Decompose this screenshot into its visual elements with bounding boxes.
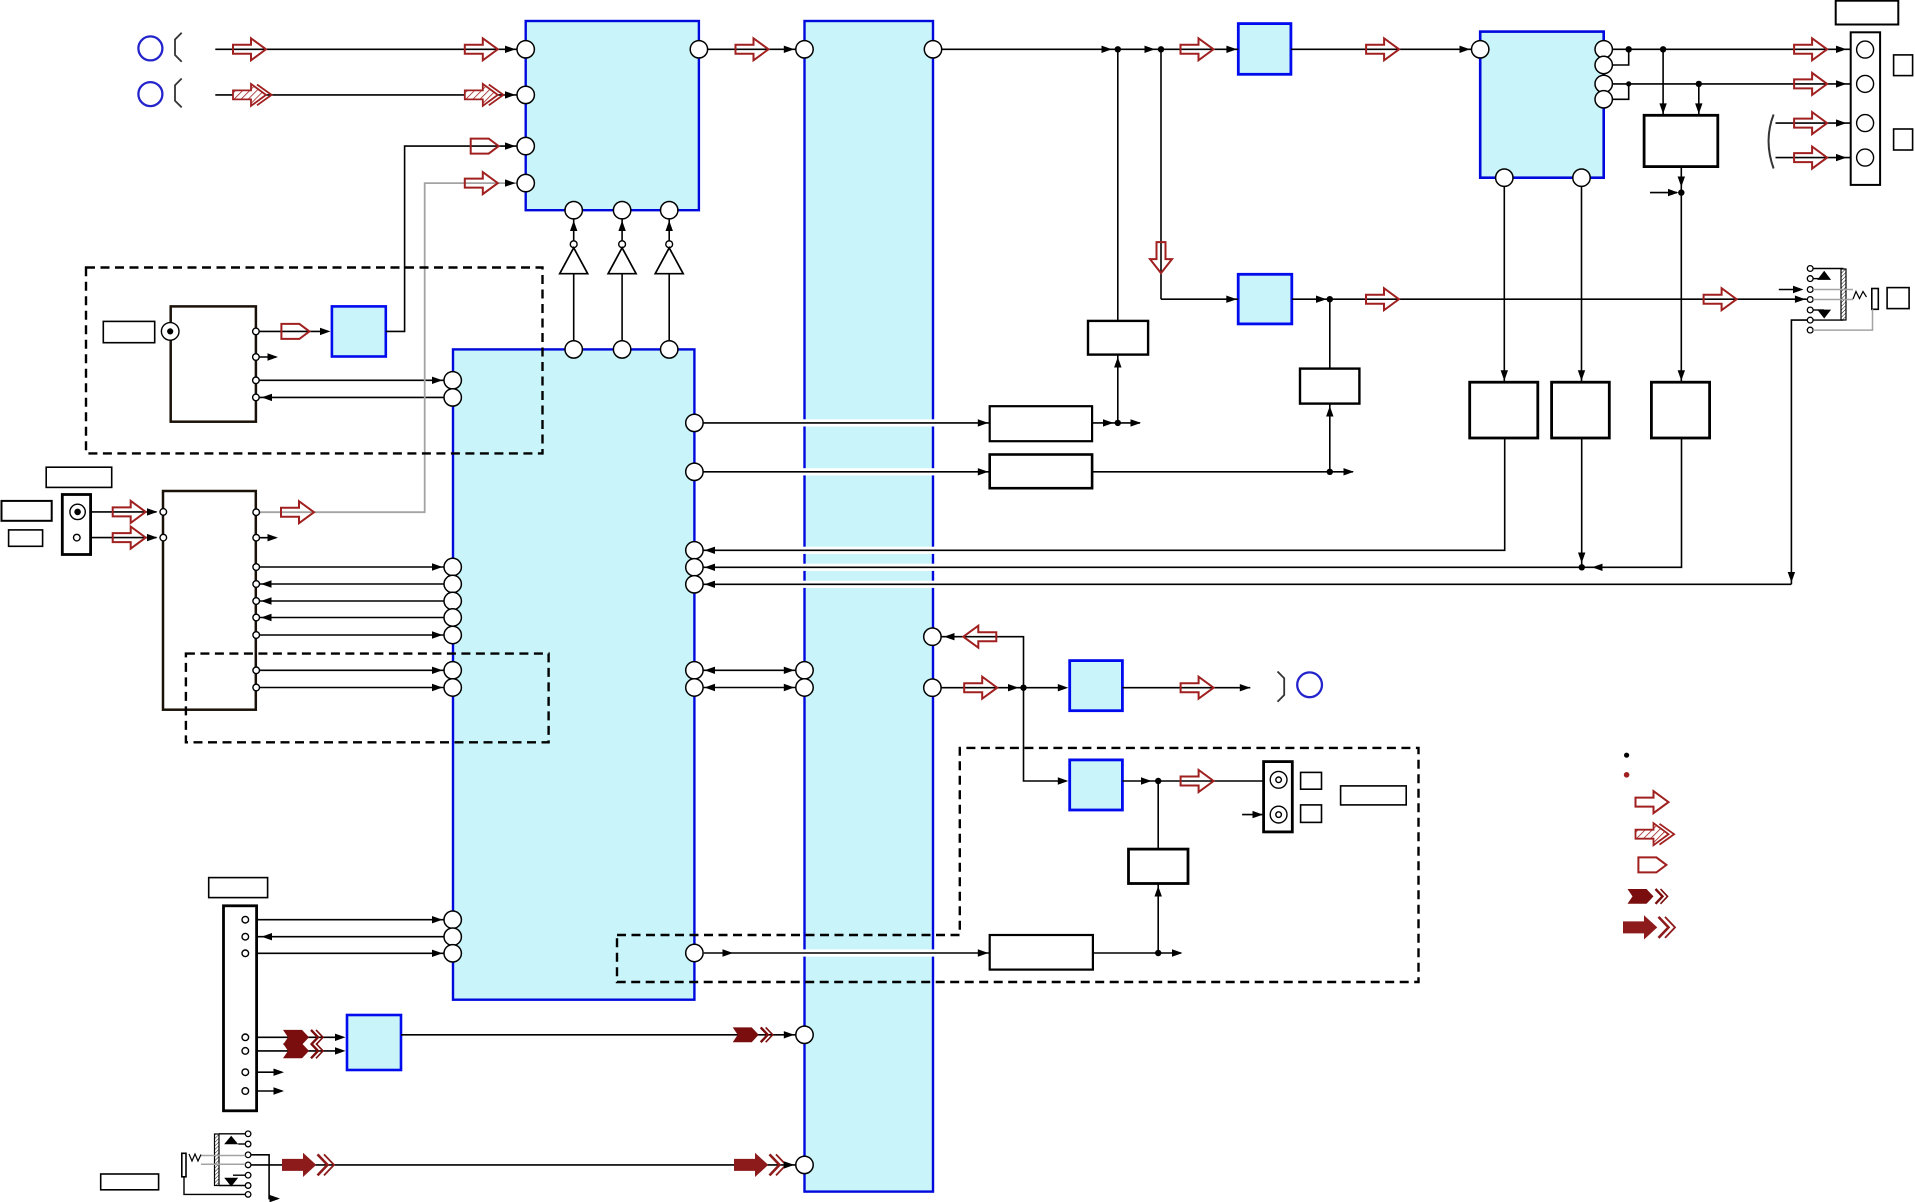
pin X3.2 [242,933,249,940]
wire halo across U2 [803,581,935,588]
label arrow row3 [471,139,499,154]
pin X1.3 [253,377,260,384]
arrowhead row670 into U3 [432,667,443,674]
arrowhead U8 out end [1240,684,1251,691]
arrowhead stub J6 [1668,189,1679,196]
arrowhead into connector pin2 [1836,80,1847,87]
IC block U8 (headphone amp) [1070,661,1123,711]
ENC2 up contact wire [238,1143,245,1145]
signal arrow jack2 in [113,527,146,549]
arrowhead into J5 [1316,296,1327,303]
wire box2 row 635 to U3 [259,634,444,636]
pin U2.r687 [924,679,941,696]
pin U2.l1034 [796,1026,813,1043]
legend dot red [1624,772,1630,778]
junction J3d [1696,81,1702,87]
signal arrow U9 out [1181,770,1214,792]
junction J8 [1579,564,1585,570]
buffer amp T3 [655,248,683,274]
ENC1 wiper zigzag [1853,292,1867,300]
arrowhead into U8 [1058,684,1069,691]
arrowhead into U2 pin 636 [944,633,955,640]
component box B1 (filter) [1088,321,1148,355]
signal arrow into encoder [1704,288,1737,310]
pin U2.in [796,41,813,58]
wire buffer2 in [621,219,623,241]
arrowhead box3 stub1072 [274,1069,285,1076]
vol arrow to U2 (big solid) [735,1154,787,1176]
wire R3 out down-left [1582,438,1682,567]
wire U5-U6 segment [1291,48,1472,50]
wire J5 drop to B2 [1329,299,1331,368]
pin X2.r9 [253,684,260,691]
wire B3 out to J4 [1092,422,1140,424]
legend arrow label [1638,857,1666,872]
ENC1 wiper wire a [1813,289,1853,291]
pin X1.2 [253,354,260,361]
wire halo across U2 [803,949,935,956]
wire connector row4 [1776,157,1857,159]
key arrow U10 out (solid) [733,1027,773,1042]
arrowhead into U1 pin4 [505,179,516,186]
signal arrow down J2 [1150,242,1172,273]
wire U6 out row1 [1612,48,1856,50]
wire box2 row 687 to U3 [259,687,444,689]
wire box2 row 617 to U3 [259,617,444,619]
arrowhead encoder drop [1788,572,1795,583]
ENC1 detent bar (hatched) [1841,269,1846,320]
junction J3a [1626,46,1632,52]
wire halo across U2 [803,419,935,426]
arrowhead into R3 [1678,370,1685,381]
junction J2 [1158,46,1164,52]
label square S4 (RCA sq1) [1301,772,1322,789]
arrowhead into U6 pin [1460,46,1471,53]
connector box X4 (power jack) [62,495,90,555]
wire U7 out to encoder [1292,298,1807,300]
wire halo across U2 [803,564,935,571]
arrowhead R2 into J8 [1578,553,1585,564]
ENC2 plug bar [182,1153,186,1177]
wire box3 stub 1091 [249,1090,283,1092]
pin U3.l380 [444,372,461,389]
pin U3.l584 [444,575,461,592]
arrowhead into box2 pin2 [147,534,158,541]
pin U3.t2 [613,341,630,358]
wire buffer1 in [573,219,575,241]
speaker circle [1297,672,1322,697]
encoder ENC1 pin 2 [1807,276,1813,282]
wire box1 stub row 357 [259,356,276,358]
wire box2 row 567 to U3 [259,566,444,568]
arrowhead into connector pin1 [1836,46,1847,53]
arrowhead row1 into U3 pin [705,547,716,554]
pin X3.3 [242,950,249,957]
IC block U7 (volume stage) [1238,274,1292,324]
pin U6.b2 [1573,169,1590,186]
pin X2.r4 [253,581,260,588]
pin U3.l635 [444,626,461,643]
pin U6.r4 [1595,91,1612,108]
wire box1 row 380 to U3 [259,379,444,381]
wire U3-U2 pair row 670 [703,669,796,671]
arrowhead into U10 b [335,1047,346,1054]
wire U6 pin2 jog [1612,49,1628,65]
pin U1.b2 [613,202,630,219]
wire R2 out down [1581,438,1583,567]
arrowhead into F1 right [1695,103,1702,114]
pin X3.5 [242,1048,249,1055]
label square S5 (RCA sq2) [1301,805,1322,823]
arrowhead pair687 right [784,684,795,691]
pin U2.out [924,41,941,58]
wire box3 row 919 to U3 [249,919,445,921]
signal arrow U2 row687 [964,677,997,699]
IC block U9 (line out buffer) [1070,760,1123,810]
arrowhead into U4 [320,328,331,335]
pin X3.7 [242,1088,249,1095]
pin X1.1 [253,328,260,335]
wire U3 row 953 to B6 [704,952,990,954]
arrowhead before J2 [1145,46,1156,53]
encoder ENC2 pin 1 [245,1131,251,1137]
legend arrow hatched [1636,823,1675,845]
pin U1.4 [517,174,534,191]
wire J9 drop to B5 [1157,781,1159,849]
ENC2 detent bar (hatched) [215,1134,220,1186]
label square S2 [1894,129,1913,150]
mic symbol M2 bracket [175,79,182,108]
wire U3 row 471 to B4 [703,471,990,473]
pin X1.4 [253,394,260,401]
encoder ENC2 pin 3 [245,1152,251,1158]
encoder ENC1 pin 3 [1807,287,1813,293]
ENC2 bottom wire [184,1177,245,1195]
pin X3.4 [242,1034,249,1041]
arrowhead into J9 [1141,777,1152,784]
pin X3.1 [242,916,249,923]
encoder ENC1 pin 4 [1807,297,1813,303]
pin U6.b1 [1496,169,1513,186]
arrowhead into J9k [1008,684,1019,691]
component box B3 (regulator) [990,406,1092,441]
label square S3 (phones) [1887,288,1909,309]
pin U1.1 [517,41,534,58]
dashed enclosure DB2 (key input group) [186,654,549,743]
pin X1.jack [167,328,174,335]
pin X2.r1 [253,509,260,516]
pin U3.l397 [444,389,461,406]
arrowhead row2 into U3 pin [705,564,716,571]
wire buffer3 in [668,219,670,241]
IC block U3 (system control / main processor) [453,349,694,999]
arrowhead into encoder c4 [1795,296,1806,303]
component box B4 (regulator) [990,455,1092,489]
arrowhead into connector pin4 [1836,154,1847,161]
signal arrow U5-U6 [1366,38,1399,60]
ENC1 down contact wire [1813,309,1824,311]
signal arrow U2-U5 [1181,38,1214,60]
jack symbol on X4 [70,504,85,519]
wire U2 out row 687 [941,687,1064,689]
pin U3.r471 [686,463,703,480]
RCA jack bottom [1270,806,1287,823]
wire halo across U2 [803,547,935,554]
label box L8 (top right) [1836,1,1899,25]
pin U3.l617 [444,609,461,626]
junction J6 [1678,189,1684,195]
dashed enclosure DB1 (reset circuit) [86,268,543,454]
pin U6.r2 [1595,56,1612,73]
arrowhead row953 into U3 [432,950,443,957]
pin U3.r550 [686,542,703,559]
wire gray reset line [260,183,517,512]
encoder ENC2 pin 7 [245,1192,251,1198]
signal arrow mic2 a (hatched) [233,84,272,106]
wire J2 drop [1160,49,1162,299]
wire U9 out to RCA L [1122,780,1270,782]
dashed enclosure DB3 (audio output group, L-shape) [617,748,1419,982]
mic symbol M2 circle [138,82,162,106]
signal arrow box1 out (label) [281,324,309,339]
arrowhead into U1 pin1 [505,46,516,53]
arrowhead into B5 bottom [1155,886,1162,897]
arrowhead row567 into U3 [432,563,443,570]
wire buffer3 out [668,274,670,341]
pin X2.r3 [253,564,260,571]
pin U3.l953 [444,945,461,962]
component box R3 [1651,382,1709,438]
wire B4 out to J7 [1092,471,1353,473]
wire encoder2 out to U2 [251,1164,796,1166]
arrowhead box1 stub357 [268,353,279,360]
component box X2 (jack detect) [163,491,256,710]
IC block U4 (reset IC in dashed box) [332,306,386,356]
ENC1 wire c6-bar [1813,319,1843,321]
pin U2.r636 [924,628,941,645]
pin X2.l1 [160,509,167,516]
ENC2 down contact wire [233,1174,245,1176]
arrowhead into B6 [978,949,989,956]
arrowhead row953 a [723,949,734,956]
pin U1.out [690,41,707,58]
wire box3 row 953 to U3 [249,952,445,954]
ENC1 sleeve wire gray [1813,309,1872,330]
label box L4 [9,530,43,546]
junction J1 [1115,46,1121,52]
junction J3c [1626,81,1631,86]
pin U3.r422 [686,414,703,431]
wire box2 row 584 to U3 [259,583,444,585]
arrowhead stub J10 [1172,949,1183,956]
IC block U1 (input selector) [526,21,699,210]
arrowhead buffer2 up [618,221,625,232]
legend arrow open [1636,791,1669,813]
encoder ENC2 pin 5 [245,1172,251,1178]
key arrow box3-1 (solid) [283,1030,323,1045]
wire mic2 line [215,94,517,96]
arrowhead B3 out into J4 [1103,419,1114,426]
wire stub into junction J6 [1650,192,1677,194]
legend arrow solid big [1624,916,1676,938]
signal arrow mic2 b (hatched) [465,84,504,106]
encoder ENC1 pin 5 [1807,307,1813,313]
pin U3.t1 [565,341,582,358]
wire box1 out row 331 [259,330,326,332]
wire U3 row 397 to box1 [259,396,444,398]
mic symbol M1 bracket [175,33,182,62]
signal arrow U1-U2 [736,38,769,60]
ENC2 wire c6-bar [219,1185,245,1187]
encoder ENC1 pin 7 [1807,327,1813,333]
ENC2 wire c1-bar [219,1133,245,1135]
wire U3 row 936 to box3 [249,936,445,938]
arrowhead into U10 a [335,1034,346,1041]
signal arrow mic1 a [233,38,266,60]
arrowhead into U2 pin top [784,46,795,53]
label box L6 [101,1174,159,1190]
buffer amp T3 bubble [666,241,673,248]
pin X2.r5 [253,598,260,605]
buffer amp T2 [608,248,636,274]
ENC2 wiper wire a [201,1155,245,1157]
arrowhead into R2 [1578,370,1585,381]
arrowhead into B3 [978,419,989,426]
key arrow box3-2 (solid) [283,1044,323,1059]
pin U3.l919 [444,911,461,928]
label box L1 [103,321,154,342]
junction J10 [1155,950,1161,956]
arrowhead encoder2 into U2 [784,1161,795,1168]
ENC1 stub into c3 [1779,289,1795,291]
encoder ENC1 pin 1 [1807,266,1813,272]
pin U3.l936 [444,928,461,945]
signal arrow gray line [281,501,314,523]
wire U6 out row2 [1612,83,1856,85]
ENC1 jack sleeve [1872,289,1879,310]
buffer amp T1 [560,248,588,274]
wire encoder2 sw stub [251,1155,278,1199]
legend arrow solid small [1628,889,1668,904]
arrowhead row584 into box2 [261,580,272,587]
wire U2-U5 segment [942,48,1239,50]
ENC1 wire c1-bar [1813,268,1843,270]
arrowhead into connector pin3 [1836,119,1847,126]
buffer amp T2 bubble [619,241,626,248]
pin U3.l567 [444,558,461,575]
pin X2.r2 [253,534,260,541]
wire B2 to J7 [1329,404,1331,472]
arrowhead into U9 [1058,777,1069,784]
ENC2 up triangle [224,1136,238,1145]
pin U3.l670 [444,662,461,679]
wire net row3 to U3 [703,583,1791,585]
junction J7 [1327,469,1333,475]
wire B1 to J4 [1117,355,1119,423]
arrowhead encoder2 sw stub [270,1195,281,1202]
pin U1.b1 [565,202,582,219]
ENC2 wiper wire b [201,1163,245,1165]
arrowhead into encoder c3 [1793,286,1804,293]
wire box3 row 1037 to U10 [249,1036,342,1038]
arrowhead F1 drop [1678,177,1685,188]
pin X4.2 [74,534,81,541]
wire halo across U2 [803,468,935,475]
arrowhead into U1 pin2 [505,91,516,98]
jack symbol on X1 [161,323,179,341]
wire U6 pin4 jog [1612,84,1628,99]
arrowhead row397 into box1 [262,394,273,401]
wire box3 stub 1072 [249,1071,283,1073]
ENC2 down triangle [224,1178,238,1187]
pin X2.l2 [160,534,167,541]
component box B5 (mute) [1129,849,1189,883]
ENC1 wiper wire b [1813,299,1853,301]
wire J1 drop to B1 [1117,49,1119,321]
pin U1.b3 [661,202,678,219]
signal arrow jack1 in [113,501,146,523]
wire U6 pin6 drop to R2 [1581,186,1583,382]
pin X3.6 [242,1069,249,1076]
arrowhead into F1 left [1659,103,1666,114]
signal arrow to connector row4 [1794,147,1827,169]
pin U3.l601 [444,592,461,609]
junction J9k [1020,685,1026,691]
pin U3.r953 [686,944,703,961]
encoder ENC2 pin 6 [245,1183,251,1189]
wire jack2 to box2 pin2 [80,537,156,539]
arrowhead U10 out into U2 [784,1031,795,1038]
arrowhead box3 stub1091 [274,1087,285,1094]
arrowhead row380 into U3 [432,377,443,384]
IC block U10 (interface buffer) [347,1015,401,1070]
encoder ENC2 pin 4 [245,1162,251,1168]
pin U3.r670 [686,662,703,679]
pin U3.l687 [444,679,461,696]
component box R2 [1552,382,1610,438]
pin X5.4 [1857,149,1874,166]
arrowhead into B4 [978,468,989,475]
arrowhead before J1 [1102,46,1113,53]
signal arrow mic1 b [465,38,498,60]
arrowhead row617 into box2 [261,614,272,621]
arrowhead into RCA R [1253,811,1264,818]
component box B2 (detector) [1300,369,1359,404]
arrowhead row3 into U3 pin [705,581,716,588]
wire connector row3 [1776,122,1857,124]
arrowhead buffer3 up [666,221,673,232]
arrowhead stub J7 [1344,468,1355,475]
signal arrow U2 row636 (left) [963,626,996,648]
pin U3.t3 [661,341,678,358]
wire B6 out [1093,952,1181,954]
arrowhead row687 into U3 [432,684,443,691]
arrowhead into U1 pin3 [505,142,516,149]
pin X2.r7 [253,632,260,639]
IC block U5 (amp stage) [1238,24,1291,75]
pin U2.l687 [796,679,813,696]
wire box2 row 601 to U3 [259,600,444,602]
wire net row2 to U3 [703,566,1582,568]
connector box X6 (RCA pair) [1264,762,1293,832]
arrowhead pair670 right [784,667,795,674]
arrowhead into U5 [1226,46,1237,53]
wire R1 out down-left [703,438,1505,550]
pin U2.l670 [796,662,813,679]
mic symbol M1 circle [138,36,162,60]
component box R1 [1470,382,1538,438]
IC block U2 (DSP, tall bus block) [805,21,934,1192]
